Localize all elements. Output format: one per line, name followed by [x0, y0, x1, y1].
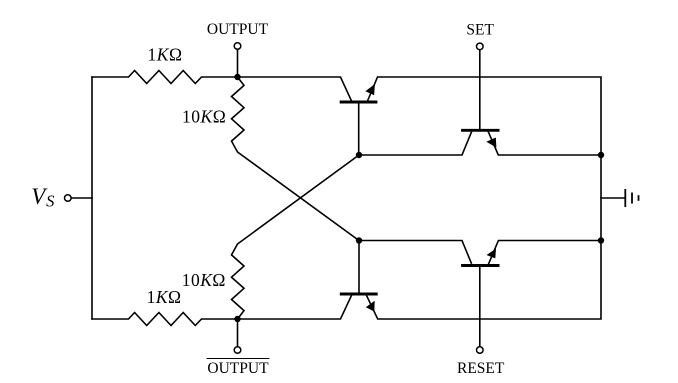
svg-text:1KΩ: 1KΩ	[147, 287, 182, 307]
svg-text:RESET: RESET	[457, 360, 505, 377]
svg-text:1KΩ: 1KΩ	[148, 44, 183, 64]
svg-text:SET: SET	[466, 21, 494, 38]
svg-text:10KΩ: 10KΩ	[182, 106, 226, 126]
svg-text:OUTPUT: OUTPUT	[207, 21, 269, 38]
svg-text:OUTPUT: OUTPUT	[207, 360, 269, 377]
svg-text:10KΩ: 10KΩ	[182, 270, 226, 290]
